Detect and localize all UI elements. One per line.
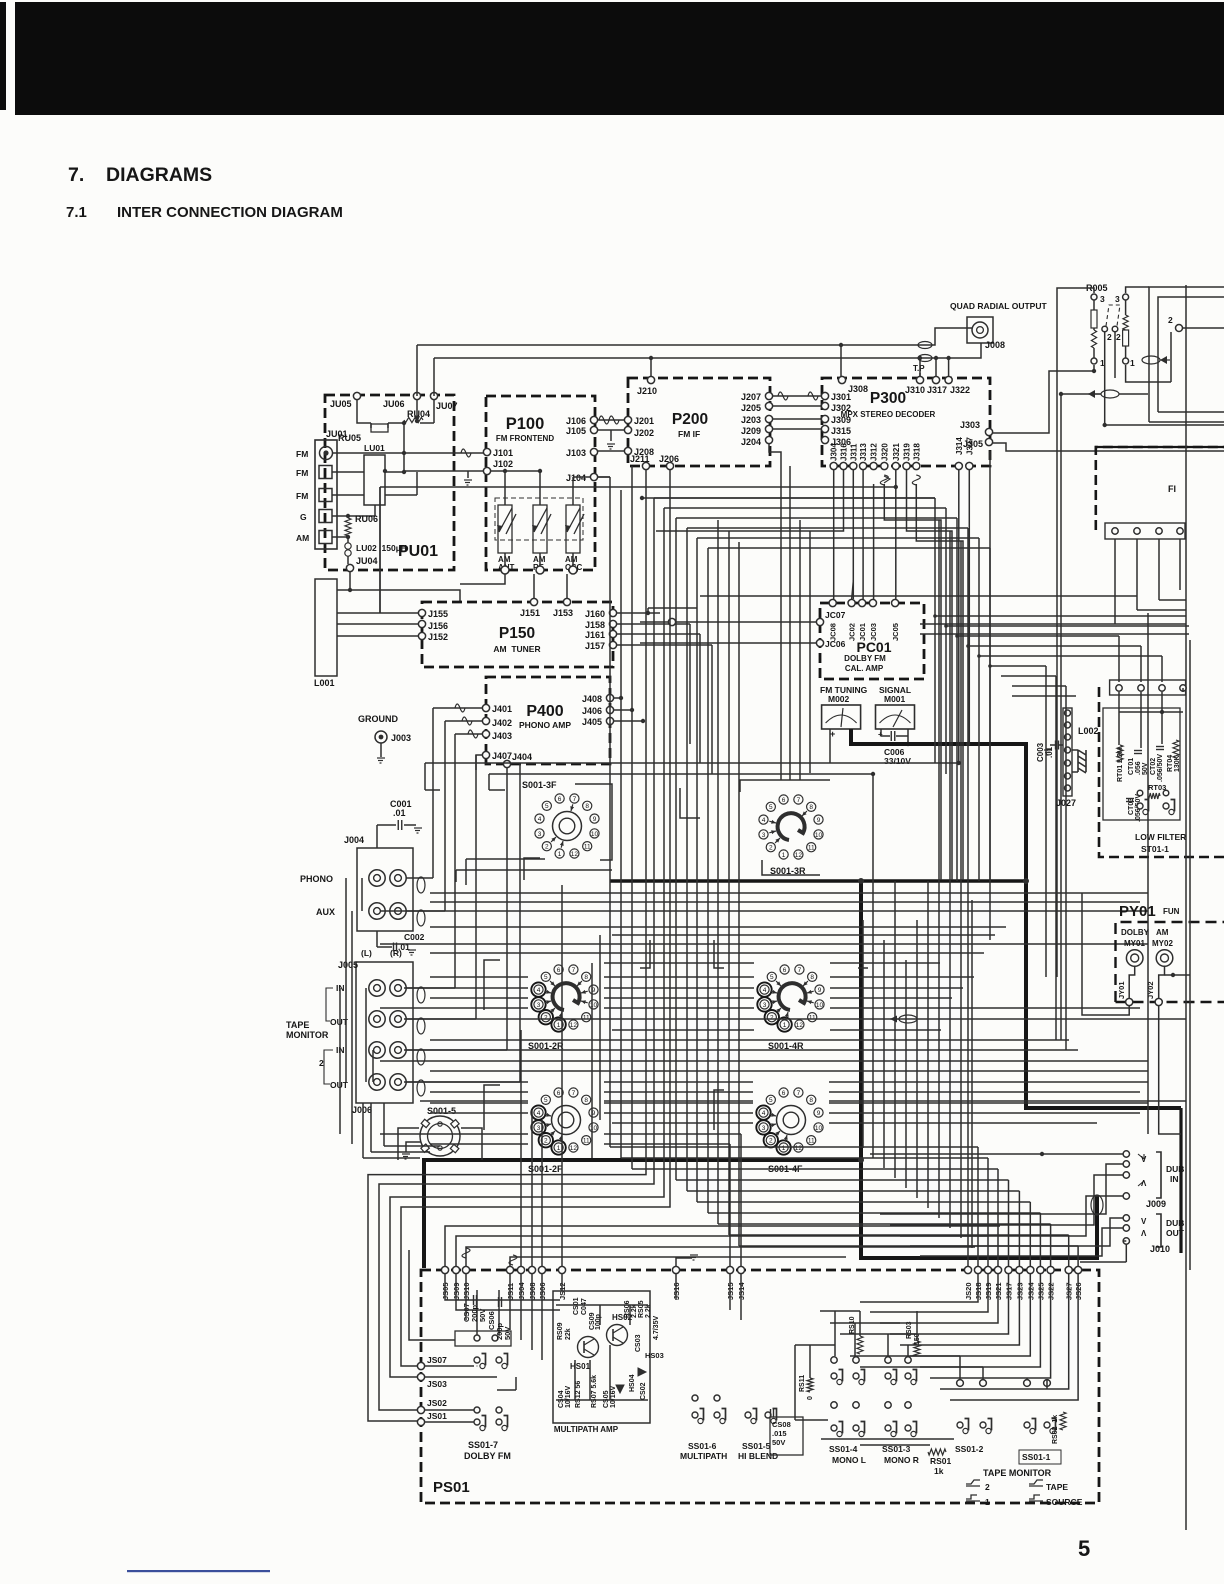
diode HS04 (616, 1385, 624, 1393)
svg-text:5: 5 (544, 1097, 548, 1104)
connector J156 (418, 620, 425, 627)
ground at JS16 (676, 1258, 692, 1266)
wire (938, 520, 940, 1218)
svg-text:RU05: RU05 (338, 433, 361, 443)
svg-text:PHONO AMP: PHONO AMP (519, 720, 571, 730)
svg-text:M002: M002 (828, 694, 850, 704)
svg-text:12: 12 (571, 851, 579, 858)
svg-text:+: + (830, 729, 835, 739)
wire J210 drop (650, 358, 652, 376)
wire bus vertical (728, 531, 730, 1235)
right bus horizontals (920, 633, 1189, 635)
svg-text:HS01: HS01 (570, 1362, 591, 1371)
wire bus vertical (675, 518, 677, 1180)
wires to J009 (870, 1153, 1123, 1155)
filter connector strip (1105, 523, 1185, 539)
wire G row (332, 515, 375, 517)
bracket S001-2R (484, 960, 500, 1010)
svg-text:RS07 5.6k: RS07 5.6k (591, 1375, 598, 1408)
wire J204 drop (780, 466, 782, 780)
wire bus horizontal row (612, 1029, 754, 1031)
wire bus horizontal row (430, 976, 528, 978)
wire staircase JS09 (456, 1236, 988, 1266)
wire J206 down then to JS07 column (401, 470, 670, 1366)
svg-text:JC07: JC07 (825, 610, 846, 620)
svg-text:10: 10 (815, 832, 823, 839)
svg-text:SS01-7: SS01-7 (468, 1440, 498, 1450)
wire bus horizontal row (604, 962, 754, 964)
terminal strip JU01 (315, 440, 337, 549)
wire J319 branch (907, 470, 953, 880)
wire (905, 960, 907, 1188)
svg-text:JS03: JS03 (427, 1379, 447, 1389)
svg-text:1: 1 (782, 1145, 786, 1152)
svg-text:P100: P100 (506, 415, 545, 433)
svg-text:CS08: CS08 (772, 1420, 791, 1429)
svg-text:10: 10 (591, 831, 599, 838)
svg-text:FI: FI (1168, 484, 1176, 494)
wire JU02 vertical feeds (416, 345, 418, 396)
svg-text:J151: J151 (520, 608, 540, 618)
svg-text:4: 4 (762, 1110, 766, 1117)
page header black bar (15, 2, 1224, 115)
wire (870, 1274, 988, 1312)
svg-text:J401: J401 (492, 704, 512, 714)
AM cap pins (501, 566, 509, 574)
terminal squares FM FM G AM (319, 466, 332, 479)
svg-text:RU06: RU06 (355, 514, 378, 524)
wire (916, 920, 918, 1198)
bead arrow left mid (1101, 390, 1119, 398)
svg-text:MONITOR: MONITOR (286, 1030, 329, 1040)
svg-text:J103: J103 (566, 448, 586, 458)
svg-text:G: G (300, 512, 307, 522)
connector J205 (765, 402, 772, 409)
wire bus corner (676, 517, 957, 519)
wire long vertical 2 (1060, 394, 1062, 1040)
svg-text:1: 1 (985, 1497, 990, 1507)
wire bus horizontal row (380, 910, 1148, 912)
svg-text:(L): (L) (361, 948, 372, 958)
svg-text:J005: J005 (338, 960, 358, 970)
PS01 top connectors right group (964, 1266, 971, 1273)
svg-text:MONO L: MONO L (832, 1455, 866, 1465)
svg-text:11: 11 (584, 844, 591, 851)
wire (971, 900, 973, 1248)
wire JU04 to L001 (337, 572, 350, 590)
svg-text:RS12 56: RS12 56 (575, 1381, 582, 1408)
svg-text:MULTIPATH AMP: MULTIPATH AMP (554, 1425, 619, 1434)
svg-text:J152: J152 (428, 632, 448, 642)
svg-text:P400: P400 (526, 703, 563, 720)
wire (956, 518, 958, 881)
wire (989, 548, 991, 940)
svg-text:J312: J312 (870, 443, 879, 461)
wire staircase JS10 (466, 1247, 975, 1266)
thick right vertical (1179, 1108, 1182, 1253)
wire (950, 1274, 1078, 1400)
svg-text:10/16V: 10/16V (565, 1385, 572, 1408)
svg-text:CS02: CS02 (640, 1382, 647, 1400)
right edge long vertical (1185, 285, 1187, 1530)
svg-text:MONO R: MONO R (884, 1455, 919, 1465)
jacks J009 DUB IN (1123, 1151, 1129, 1157)
PS01 interior left wires (445, 1274, 560, 1300)
R005 pole B resistor (1123, 315, 1128, 330)
svg-text:J156: J156 (428, 621, 448, 631)
wire jack feeds (406, 877, 433, 879)
wire bus horizontal row (380, 943, 1148, 945)
wires JS07 JS03 to SS01-7 (425, 1365, 474, 1367)
svg-text:ST01-1: ST01-1 (1141, 844, 1169, 854)
jack J008 (967, 317, 993, 343)
R005 pole A pin 1 (1091, 358, 1097, 364)
svg-text:3: 3 (1100, 294, 1105, 304)
wire bus corner (687, 527, 968, 529)
svg-text:4: 4 (537, 987, 541, 994)
connector JU05 (353, 392, 360, 399)
svg-text:S001-5: S001-5 (427, 1106, 456, 1116)
wire into SS01-7 top (409, 1250, 455, 1340)
svg-text:RS09: RS09 (557, 1322, 564, 1340)
wire bus vertical (707, 548, 709, 1213)
svg-text:11: 11 (809, 1015, 816, 1022)
svg-text:J313: J313 (859, 443, 868, 461)
resistor RS01 (928, 1449, 946, 1455)
R005 pole A resistor (1091, 310, 1097, 328)
block P300 dashed outline (822, 378, 990, 466)
svg-text:SS01-5: SS01-5 (742, 1441, 771, 1451)
wire bus horizontal row (430, 997, 528, 999)
PS01 wires JS16 region (675, 1274, 677, 1300)
svg-text:11: 11 (583, 1138, 590, 1145)
wire extra column 600 (599, 935, 601, 1120)
connector JY02 (1155, 998, 1162, 1005)
wire pole B bottom (1126, 365, 1148, 382)
wire J305 right (993, 443, 1224, 451)
svg-text:1: 1 (557, 1145, 561, 1152)
wire extra column 592 (591, 963, 593, 1158)
svg-text:LU02 150µH: LU02 150µH (356, 543, 407, 553)
svg-text:2: 2 (544, 1015, 548, 1022)
svg-text:AM TUNER: AM TUNER (493, 644, 540, 654)
beads under P300 (880, 475, 888, 485)
box MULTIPATH AMP (553, 1291, 650, 1423)
wire bus horizontal row (420, 1100, 528, 1102)
svg-text:JC02: JC02 (848, 623, 857, 641)
wire (894, 881, 896, 1178)
svg-text:4.7/35V: 4.7/35V (653, 1316, 660, 1340)
svg-text:10: 10 (590, 1002, 598, 1009)
svg-text:.015: .015 (772, 1429, 787, 1438)
wire FM row 1 (333, 452, 487, 454)
svg-text:JU04: JU04 (356, 556, 378, 566)
block P100 dashed outline (486, 396, 595, 570)
wire (930, 1274, 1051, 1378)
connector J160 (609, 609, 616, 616)
PS01 switch risers SS01-3 (887, 1334, 889, 1356)
wire bus horizontal row (430, 901, 1140, 903)
svg-text:8: 8 (809, 804, 813, 811)
connector J161 (609, 630, 616, 637)
connector J315 (821, 425, 828, 432)
PS01 switch risers SS01-4 (834, 1311, 836, 1356)
connector J405 (606, 717, 613, 724)
svg-text:CT02: CT02 (1150, 758, 1157, 775)
svg-text:CT03: CT03 (1128, 798, 1135, 815)
wire JS12 long (561, 885, 563, 1266)
svg-text:J204: J204 (741, 437, 761, 447)
svg-text:2: 2 (769, 845, 773, 852)
connector J306 (821, 436, 828, 443)
svg-text:FM: FM (296, 491, 308, 501)
svg-text:RS01: RS01 (930, 1456, 952, 1466)
wire jack box inner verticals (365, 988, 367, 1082)
svg-text:J160: J160 (585, 609, 605, 619)
wire bus vertical (738, 542, 740, 1246)
connector J157 (609, 641, 616, 648)
resistor RS03 (914, 1341, 920, 1356)
rotary switch S001-4F (776, 1140, 790, 1154)
svg-text:C002: C002 (404, 932, 425, 942)
rotary switch S001-3R (779, 850, 788, 859)
wire drop 810 (809, 531, 811, 773)
svg-text:J311: J311 (849, 443, 858, 461)
wire bus horizontal row (380, 1007, 528, 1009)
connector J305 (985, 438, 992, 445)
multipath internal wires (556, 1304, 648, 1306)
wire JC06 left (640, 642, 816, 644)
svg-text:FM: FM (296, 449, 308, 459)
wires to J010 (910, 1218, 1123, 1246)
wire (860, 1274, 978, 1302)
wire JS08 long (531, 1110, 533, 1266)
switch group SS01-3 (885, 1357, 891, 1363)
wire bus horizontal row (612, 934, 995, 936)
connector JC07 (816, 618, 823, 625)
svg-text:P300: P300 (870, 390, 906, 407)
ST01 contacts (1137, 803, 1143, 809)
connector J303 (985, 428, 992, 435)
wire fan run (676, 1179, 1009, 1181)
wire fan run (718, 1223, 1051, 1225)
svg-text:12: 12 (795, 1145, 803, 1152)
wire (910, 1274, 1030, 1356)
right edge vertical 2 (1189, 640, 1191, 1270)
svg-text:J309: J309 (831, 415, 851, 425)
PS01 left connectors (417, 1362, 424, 1369)
block P200 dashed outline (628, 378, 770, 466)
connector JU06 (413, 392, 420, 399)
svg-text:1: 1 (558, 851, 562, 858)
svg-text:7: 7 (572, 1090, 576, 1097)
svg-text:50V: 50V (772, 1438, 785, 1447)
svg-text:J161: J161 (585, 630, 605, 640)
wire M002 minus lead (829, 729, 831, 763)
wire JS04 long (520, 1030, 522, 1266)
svg-text:5: 5 (1078, 1536, 1090, 1561)
wire J316 branch (656, 470, 844, 531)
wire FM row 2 (332, 471, 364, 473)
wire bead row (1061, 393, 1101, 395)
svg-text:5: 5 (770, 974, 774, 981)
wire rows into S001-3F (489, 789, 505, 791)
resistor RS10 (857, 1336, 863, 1354)
wire fan run (729, 1234, 1069, 1236)
svg-text:P200: P200 (672, 411, 708, 428)
RS11 row (795, 1344, 835, 1346)
wire J102 into caps (491, 470, 540, 472)
jacks J010 DUB OUT (1123, 1215, 1129, 1221)
svg-text:JS20: JS20 (964, 1282, 973, 1300)
wire (880, 1274, 998, 1323)
svg-text:J105: J105 (566, 426, 586, 436)
wire bus horizontal row (430, 1070, 1148, 1072)
svg-text:J101: J101 (493, 448, 513, 458)
svg-text:3: 3 (537, 1002, 541, 1009)
block PC01 dashed outline (820, 603, 924, 679)
svg-text:2: 2 (545, 844, 549, 851)
svg-text:J010: J010 (1150, 1244, 1170, 1254)
wire bus horizontal row (430, 892, 1148, 894)
svg-text:J318: J318 (912, 443, 921, 461)
svg-text:PHONO: PHONO (300, 874, 333, 884)
wire (934, 498, 936, 763)
switch group SS01-4 (831, 1357, 837, 1363)
svg-text:5: 5 (769, 1097, 773, 1104)
wire row 859 (466, 858, 545, 860)
svg-text:7: 7 (797, 797, 801, 804)
svg-text:5: 5 (545, 803, 549, 810)
wire (945, 508, 947, 774)
thick bus horizontal mid (610, 879, 1026, 883)
svg-text:J106: J106 (566, 416, 586, 426)
wire JU05 branch (357, 400, 371, 423)
filter wires down (1114, 539, 1116, 624)
wire pole A top to long vertical (1057, 288, 1094, 297)
aux jacks (369, 903, 385, 919)
wires caps to P150 (504, 553, 506, 566)
block PY01 dashed outline (1116, 922, 1224, 1002)
svg-text:8: 8 (584, 974, 588, 981)
wire FM to J102 (404, 470, 483, 472)
svg-text:J310: J310 (905, 385, 925, 395)
wire (890, 1274, 1009, 1334)
wire bus horizontal row (380, 1133, 528, 1135)
svg-text:100p: 100p (595, 1314, 602, 1330)
wires J158 J161 J157 right (617, 623, 690, 625)
upper filter dashed box (1096, 447, 1224, 530)
svg-text:J321: J321 (892, 443, 901, 461)
wire bead drop right of J008 (989, 451, 991, 881)
wire bus horizontal row (430, 1143, 528, 1145)
svg-text:LOW FILTER: LOW FILTER (1135, 832, 1186, 842)
svg-text:4: 4 (537, 1110, 541, 1117)
svg-text:2: 2 (985, 1482, 990, 1492)
connector J203 (765, 415, 772, 422)
AM variable capacitors (495, 498, 583, 540)
svg-text:CT01: CT01 (1128, 758, 1135, 775)
wire J317 drop (935, 358, 937, 376)
wire J103-J208 (598, 450, 624, 452)
wire bus horizontal row (430, 1091, 528, 1093)
connector strip upper (1110, 680, 1186, 695)
wire bus vertical (686, 528, 688, 1191)
svg-text:3: 3 (537, 1125, 541, 1132)
connector J204 (765, 436, 772, 443)
wire right column (1147, 613, 1149, 1134)
svg-text:JS01: JS01 (427, 1411, 447, 1421)
wire fan run (687, 1190, 1019, 1192)
svg-text:FM: FM (296, 468, 308, 478)
wire bus vertical (609, 477, 611, 1147)
bottom margin mark (127, 1570, 270, 1572)
svg-text:SS01-1: SS01-1 (1022, 1452, 1051, 1462)
svg-text:3: 3 (762, 1125, 766, 1132)
wire drop 800 (799, 520, 801, 780)
top right inner wires (1170, 332, 1172, 382)
rotary switch S001-2R (551, 1017, 565, 1031)
wire J104 row (573, 476, 590, 478)
svg-text:2.2k: 2.2k (631, 1304, 638, 1318)
svg-text:HS03: HS03 (645, 1351, 664, 1360)
svg-text:J157: J157 (585, 641, 605, 651)
wire J322 drop (948, 358, 950, 376)
svg-text:CS01: CS01 (573, 1297, 580, 1315)
wire (960, 541, 962, 1238)
svg-text:CS04: CS04 (558, 1390, 565, 1408)
svg-text:11: 11 (808, 845, 815, 852)
svg-text:J158: J158 (585, 620, 605, 630)
svg-text:6: 6 (557, 1090, 561, 1097)
wire fan run (621, 1157, 988, 1159)
svg-text:CAL. AMP: CAL. AMP (845, 664, 884, 673)
wire fan run (697, 1201, 1030, 1203)
connector J202 (624, 426, 631, 433)
wire (900, 1274, 1019, 1345)
svg-text:M001: M001 (884, 694, 906, 704)
connector J322 (945, 376, 952, 383)
connector J210 (647, 376, 654, 383)
phono jacks (369, 870, 385, 886)
switch S001-5 (420, 1116, 460, 1156)
connector J401 (482, 704, 489, 711)
svg-text:9: 9 (593, 816, 597, 823)
svg-text:DUB: DUB (1166, 1218, 1184, 1228)
wire wiper A down (1104, 332, 1106, 425)
wire bus vertical (631, 466, 633, 1169)
connector J308 (838, 376, 845, 383)
wire bus vertical (717, 520, 719, 1224)
wire wiper B down (1114, 332, 1116, 378)
svg-text:J317: J317 (927, 385, 947, 395)
PY01 wires (1129, 966, 1135, 998)
connector J104 (590, 473, 597, 480)
svg-text:JU07: JU07 (436, 401, 458, 411)
wire left column (351, 911, 353, 1144)
wire JS06 long (541, 1120, 543, 1266)
wires P300 to PC01 (833, 470, 835, 599)
connector JC06 (816, 639, 823, 646)
wire bus horizontal row (430, 1102, 528, 1104)
resistor RU05 (371, 424, 388, 432)
wire J104 to bus (598, 476, 610, 478)
svg-text:2: 2 (1116, 332, 1121, 342)
wire fan run (610, 1146, 978, 1148)
svg-text:FM IF: FM IF (678, 429, 700, 439)
wire bus horizontal row (380, 486, 896, 488)
svg-text:L002: L002 (1078, 726, 1099, 736)
